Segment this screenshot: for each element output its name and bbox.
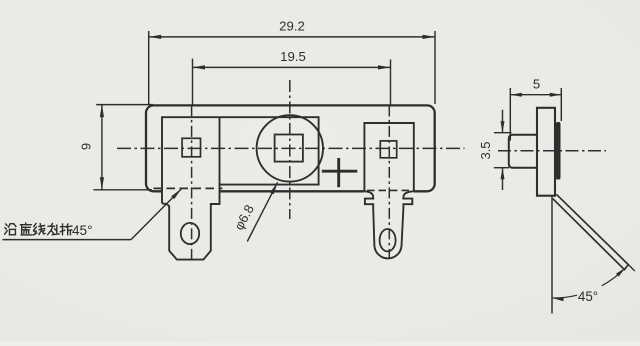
dimension 3.5 arrow lines (outside) [502,110,504,133]
note glyph 虚 [21,223,32,235]
leader line phi 6.8 [247,182,277,241]
svg-text:45°: 45° [578,289,598,304]
plus marker (rivet position) [322,170,358,173]
left tab square hole [182,138,200,157]
right tab square hole [380,141,396,158]
dimension 5 line with arrows [510,94,561,96]
dimension 9 line with arrows [101,105,103,190]
vertical centerline left tab [191,105,193,263]
leg dimension extension line [628,265,635,271]
svg-text:9: 9 [79,143,94,150]
dimension 29.2 line with arrows [149,36,435,38]
note glyph 沿 [5,224,16,235]
note glyph 处 [48,224,60,235]
note glyph 线 [33,224,45,235]
plate outline (main view, rounded rect) [146,105,435,191]
dimension 9 extension lines [96,104,153,106]
side view dark strip (tab edge-on) [556,122,561,180]
svg-text:19.5: 19.5 [280,49,306,64]
left terminal tab body [162,117,220,259]
vertical centerline through circle [289,80,291,219]
note glyph 折 [61,224,72,235]
center square hole [275,135,303,162]
fold dashed line (right tab) [367,189,411,191]
svg-text:29.2: 29.2 [279,18,305,33]
right tab oval hole [380,229,396,251]
45 degree dimension arc [553,295,578,298]
horizontal centerline (main view) [117,147,465,149]
inner raised-region rectangle [162,117,319,203]
side view horizontal centerline [498,150,606,152]
side view boss (cylindrical protrusion) [509,135,537,168]
svg-text:3.5: 3.5 [478,141,493,159]
svg-text:45°: 45° [72,223,93,238]
vertical reference line [551,196,553,314]
right terminal tab body with neck ears [364,123,413,258]
note underline and leader to fold line [3,239,132,241]
dimension 19.5 extension lines [192,59,194,106]
dimension 29.2 extension lines [148,31,150,105]
svg-text:5: 5 [533,77,540,92]
dimension 5 extension lines [509,88,511,141]
dimension 3.5 extension lines [494,132,512,134]
dimension 19.5 line with arrows [193,66,391,68]
left tab oval hole [181,223,199,244]
fold dashed line (left tab) [154,187,223,189]
side view plate (edge) [537,108,555,196]
center boss circle phi 6.8 [257,115,323,181]
vertical centerline right tab [388,105,390,259]
bent tab leg at 45 degrees [553,194,629,269]
